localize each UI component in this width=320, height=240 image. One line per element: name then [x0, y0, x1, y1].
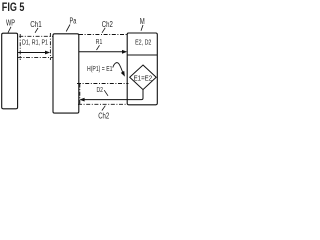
dashed box Ch1 right border — [49, 33, 51, 60]
box M — [127, 33, 157, 105]
leader WP — [8, 27, 11, 33]
wire diamond to D2 arrow — [84, 90, 143, 100]
dashed Ch2 middle border — [77, 83, 129, 85]
dashed Ch2 top border — [79, 34, 127, 36]
svg-text:D1, R1, P1: D1, R1, P1 — [22, 38, 48, 47]
dashed box Ch1 left border — [19, 34, 21, 60]
arrow R1 — [79, 51, 123, 53]
leader M — [141, 25, 143, 31]
svg-text:E1=E2: E1=E2 — [134, 73, 153, 82]
leader Ch2 bottom — [102, 106, 105, 111]
leader Ch2 top — [102, 28, 105, 33]
leader D2 — [104, 90, 108, 96]
dashed Ch2 bottom border — [78, 103, 127, 105]
svg-text:R1: R1 — [96, 37, 103, 46]
dashed box Ch1 top border — [19, 35, 53, 37]
svg-text:D2: D2 — [97, 85, 104, 94]
leader R1 — [97, 45, 100, 50]
arrow D1,R1,P1 — [18, 52, 46, 54]
svg-text:Ch2: Ch2 — [98, 111, 109, 120]
leader Ch1 — [35, 28, 38, 33]
box WP (workpiece) — [2, 33, 18, 109]
svg-text:E2, D2: E2, D2 — [135, 37, 151, 46]
svg-text:Pa: Pa — [70, 16, 77, 25]
divider in box M — [127, 54, 157, 56]
box Pa — [53, 34, 79, 113]
arrowhead D2 — [79, 98, 84, 102]
svg-text:FIG 5: FIG 5 — [2, 0, 25, 14]
leader Pa — [66, 25, 70, 32]
arrow H to diamond — [113, 63, 123, 73]
svg-text:Ch1: Ch1 — [30, 20, 42, 29]
diamond E1=E2 — [130, 65, 157, 90]
dashed Ch2 lower-left border — [79, 84, 81, 105]
svg-text:WP: WP — [6, 19, 15, 28]
svg-text:M: M — [140, 17, 145, 26]
svg-text:Ch2: Ch2 — [102, 20, 113, 29]
svg-text:H(P1) = E1: H(P1) = E1 — [87, 64, 113, 73]
dashed box Ch1 bottom border — [18, 56, 54, 58]
